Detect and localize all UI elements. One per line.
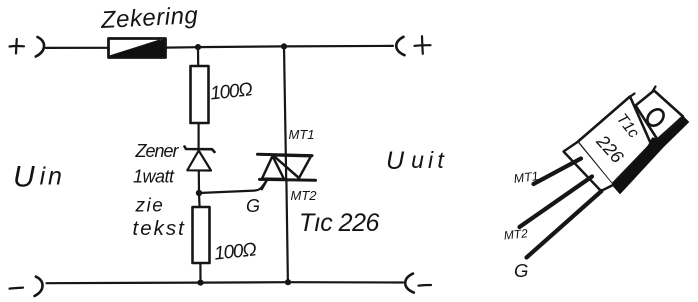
- terminal + (top left): [10, 37, 45, 57]
- svg-text:G: G: [246, 196, 260, 216]
- tab corner tick: [653, 87, 656, 92]
- package mounting hole: [644, 106, 667, 129]
- svg-text:Zener: Zener: [135, 141, 180, 161]
- package TIC226 body: [578, 97, 652, 185]
- node junction bottom of R2: [197, 280, 203, 286]
- svg-text:MT2: MT2: [291, 188, 318, 203]
- wire bottom rail: [47, 282, 404, 283]
- wire from top rail down to R1: [197, 47, 199, 66]
- svg-text:zie: zie: [135, 196, 165, 217]
- wire gate to triac: [199, 181, 267, 193]
- svg-text:1watt: 1watt: [133, 167, 175, 187]
- wire zener to node G: [198, 171, 200, 193]
- svg-text:Zekering: Zekering: [99, 2, 199, 34]
- node junction top of triac: [281, 43, 287, 49]
- wire top rail middle: [166, 46, 199, 49]
- svg-text:MT1: MT1: [289, 127, 315, 142]
- wire R1 to zener: [198, 123, 200, 148]
- package side shading: [613, 117, 689, 194]
- svg-text:G: G: [514, 260, 528, 281]
- lead MT2: [520, 177, 593, 228]
- svg-text:Uin: Uin: [13, 161, 65, 194]
- lead G: [527, 191, 602, 258]
- wire triac branch upper: [284, 46, 286, 154]
- node junction top of R1: [195, 44, 201, 50]
- package mounting tab: [636, 91, 684, 140]
- svg-text:Tıc 226: Tıc 226: [299, 209, 379, 237]
- svg-text:tekst: tekst: [133, 217, 186, 240]
- svg-text:MT2: MT2: [503, 226, 529, 242]
- svg-text:100Ω: 100Ω: [213, 239, 257, 264]
- lead MT1: [534, 159, 582, 185]
- triac TIC226: [258, 154, 316, 189]
- terminal + (top right): [396, 36, 430, 55]
- wire top rail left: [46, 47, 108, 49]
- wire triac branch lower: [286, 180, 288, 282]
- terminal - (bottom left): [10, 277, 43, 296]
- wire top rail to triac branch: [198, 45, 284, 48]
- terminal - (bottom right): [405, 274, 431, 293]
- svg-text:Uuit: Uuit: [386, 147, 448, 175]
- resistor R2 100 ohm: [193, 207, 210, 263]
- zener diode D1: [185, 147, 215, 171]
- wire node to R2: [198, 194, 201, 207]
- node junction bottom of triac: [285, 279, 291, 285]
- wire R2 to bottom rail: [199, 263, 201, 283]
- svg-text:100Ω: 100Ω: [209, 79, 253, 104]
- wire top rail right: [284, 45, 393, 48]
- fuse (Zekering): [109, 39, 166, 58]
- body corner tick: [629, 94, 635, 98]
- resistor R1 100 ohm: [191, 66, 209, 123]
- package end cap: [564, 142, 614, 191]
- node junction gate branch: [196, 190, 202, 196]
